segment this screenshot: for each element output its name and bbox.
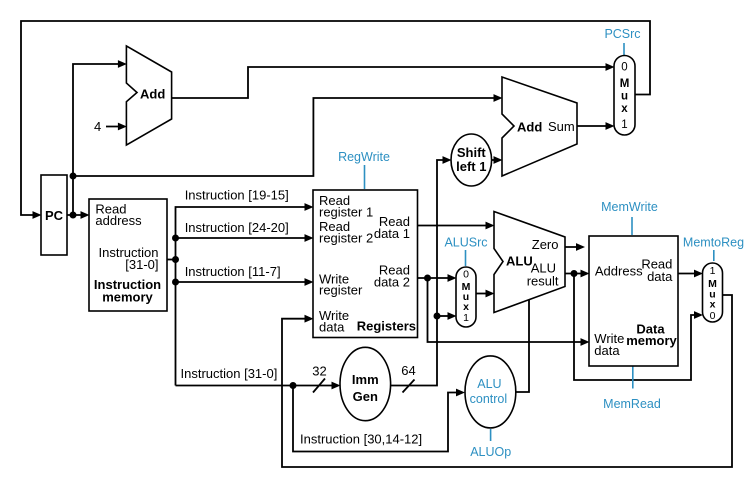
svg-text:ALU: ALU [506, 254, 533, 269]
svg-text:1: 1 [463, 312, 469, 324]
svg-text:Shift: Shift [457, 145, 487, 160]
svg-text:0: 0 [710, 310, 716, 322]
svg-text:x: x [621, 103, 628, 115]
svg-text:data 1: data 1 [374, 226, 410, 241]
svg-text:result: result [527, 274, 559, 289]
svg-text:Registers: Registers [357, 319, 416, 334]
svg-text:0: 0 [621, 61, 627, 73]
svg-text:register 2: register 2 [319, 231, 373, 246]
svg-text:register 1: register 1 [319, 205, 373, 220]
svg-text:Instruction [11-7]: Instruction [11-7] [185, 264, 281, 279]
svg-text:32: 32 [312, 364, 326, 379]
svg-text:MemtoReg: MemtoReg [683, 236, 744, 250]
svg-text:Add: Add [517, 120, 542, 135]
svg-text:0: 0 [463, 268, 469, 280]
svg-text:data: data [319, 320, 345, 335]
svg-text:PCSrc: PCSrc [604, 27, 640, 41]
svg-text:control: control [470, 392, 508, 406]
svg-text:Zero: Zero [532, 237, 559, 252]
svg-text:memory: memory [102, 290, 153, 305]
svg-text:Instruction [19-15]: Instruction [19-15] [185, 188, 289, 203]
svg-text:register: register [319, 283, 363, 298]
svg-text:data: data [594, 343, 620, 358]
svg-text:ALUSrc: ALUSrc [444, 236, 487, 250]
svg-text:4: 4 [94, 119, 101, 134]
svg-text:M: M [620, 78, 630, 90]
svg-text:1: 1 [621, 119, 627, 131]
svg-text:Imm: Imm [352, 372, 379, 387]
svg-text:u: u [621, 91, 628, 103]
svg-text:Gen: Gen [353, 389, 378, 404]
svg-text:RegWrite: RegWrite [338, 150, 390, 164]
svg-text:Instruction [24-20]: Instruction [24-20] [185, 220, 289, 235]
svg-text:data: data [647, 269, 673, 284]
svg-text:64: 64 [401, 363, 415, 378]
svg-text:MemWrite: MemWrite [601, 200, 658, 214]
svg-text:1: 1 [710, 265, 716, 277]
svg-text:[31-0]: [31-0] [125, 257, 158, 272]
svg-text:Add: Add [140, 87, 165, 102]
svg-text:Sum: Sum [548, 119, 575, 134]
svg-text:PC: PC [45, 208, 64, 223]
svg-text:ALUOp: ALUOp [470, 445, 511, 459]
svg-text:memory: memory [626, 333, 677, 348]
svg-text:data 2: data 2 [374, 275, 410, 290]
svg-text:ALU: ALU [477, 377, 501, 391]
svg-text:Address: Address [595, 264, 643, 279]
svg-text:Instruction [31-0]: Instruction [31-0] [181, 366, 278, 381]
svg-text:MemRead: MemRead [603, 397, 661, 411]
svg-text:Instruction [30,14-12]: Instruction [30,14-12] [300, 431, 422, 446]
svg-text:address: address [95, 213, 142, 228]
svg-text:x: x [710, 299, 716, 311]
svg-text:left 1: left 1 [456, 159, 486, 174]
